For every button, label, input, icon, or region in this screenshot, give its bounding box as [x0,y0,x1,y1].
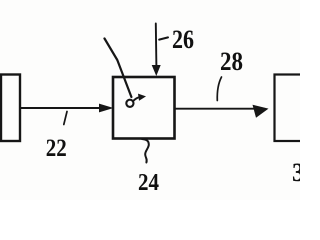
wire 28 (middle box to right box) [175,108,257,110]
arrowhead of wire 28 [253,105,269,118]
block 30 (right box, partially cut) [275,75,315,142]
svg-text:28: 28 [220,47,243,76]
adjustment arm (diagonal line into middle box) [105,39,132,98]
pigtail tail to arrowhead [133,97,139,101]
arrowhead of wire 26 [152,65,161,76]
leader squiggle for label 24 [142,139,149,163]
svg-text:26: 26 [172,25,194,54]
pigtail loop of adjustment arm [126,100,133,107]
block 20 (left box, partially cut) [1,75,20,142]
svg-text:24: 24 [138,170,159,196]
svg-text:30: 30 [292,158,300,187]
arrowhead of wire 22 [99,104,114,113]
svg-text:22: 22 [46,135,67,162]
leader tick for label 28 [217,77,221,101]
wire 22 (left box to middle box) [20,107,101,109]
leader tick for label 22 [64,112,67,125]
wire 26 (vertical input line) [155,24,158,67]
leader dash for label 26 [159,37,168,39]
block 24 (middle box) [113,77,175,139]
arrowhead of adjustment arm [138,94,146,101]
